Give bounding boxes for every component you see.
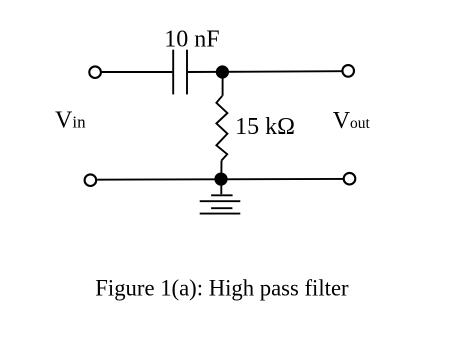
terminal input bottom xyxy=(85,174,97,186)
capacitor C1 left plate xyxy=(172,50,174,95)
svg-text:10 nF: 10 nF xyxy=(164,27,219,53)
wire bottom xyxy=(97,178,343,181)
resistor R1 xyxy=(216,96,227,161)
ground bar 1 short xyxy=(211,194,233,196)
wire top-right xyxy=(188,70,342,73)
ground bar 2 long xyxy=(200,200,241,202)
ground stub wire xyxy=(220,184,222,194)
wire resistor top lead xyxy=(222,76,224,96)
ground bar 3 short xyxy=(211,207,232,209)
terminal output top xyxy=(342,65,354,77)
capacitor C1 right plate xyxy=(186,50,188,95)
wire resistor bottom lead xyxy=(220,161,222,180)
svg-text:Figure 1(a): High pass filter: Figure 1(a): High pass filter xyxy=(95,276,349,301)
terminal input top xyxy=(89,66,101,78)
ground bar 4 long xyxy=(200,213,241,215)
svg-text:Vin: Vin xyxy=(55,108,86,134)
svg-text:15 kΩ: 15 kΩ xyxy=(235,114,295,140)
node junction top xyxy=(216,65,229,78)
terminal output bottom xyxy=(344,173,356,185)
svg-text:Vout: Vout xyxy=(333,108,371,134)
node junction bottom xyxy=(214,173,227,186)
wire top-left xyxy=(102,71,173,73)
